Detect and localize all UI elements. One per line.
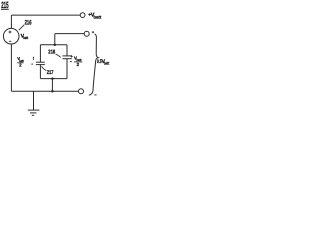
polarity minus right [70,61,72,63]
terminal +Vbatt [80,13,85,18]
wire cap network left branch [39,45,41,62]
svg-text:215: 215 [1,0,8,10]
svg-text:217: 217 [47,70,54,76]
junction on bottom rail [51,90,54,93]
wire cap network top [40,44,67,46]
wire cap network right branch [66,45,68,56]
svg-text:216: 216 [25,19,32,26]
capacitor C218 [63,55,72,57]
leader 217 [41,66,46,70]
junction on network top [54,43,57,46]
battery source 216 [3,28,19,44]
wire source to bottom rail [10,44,12,91]
wire below C218 [66,59,68,79]
svg-text:batt: batt [104,60,110,65]
label minus at minus terminal [94,94,96,96]
terminal plus output [84,31,89,36]
capacitor C217 [36,61,45,63]
wire top rail from source to +Vbatt terminal [11,15,80,29]
wire bottom rail [11,90,78,92]
svg-text:218: 218 [48,49,55,55]
wire feed to + terminal [55,34,84,45]
leader 218 [56,54,61,57]
polarity plus right [71,55,73,57]
wire stub cap network to rail [51,79,53,92]
wire below C217 [39,65,41,79]
polarity plus left (arrow) [33,56,35,58]
ground [33,91,35,110]
terminal minus output [79,89,84,94]
brace 0.5Vbatt [89,34,98,95]
leader 216 [19,25,24,30]
wire cap network bottom [40,78,67,80]
junction on network bottom [51,77,54,80]
svg-text:batt: batt [23,36,29,40]
svg-text:batt: batt [94,14,102,19]
polarity minus left [31,63,33,65]
svg-text:2: 2 [77,62,80,67]
label +Vbatt [88,13,91,16]
label + at plus terminal [92,31,94,33]
